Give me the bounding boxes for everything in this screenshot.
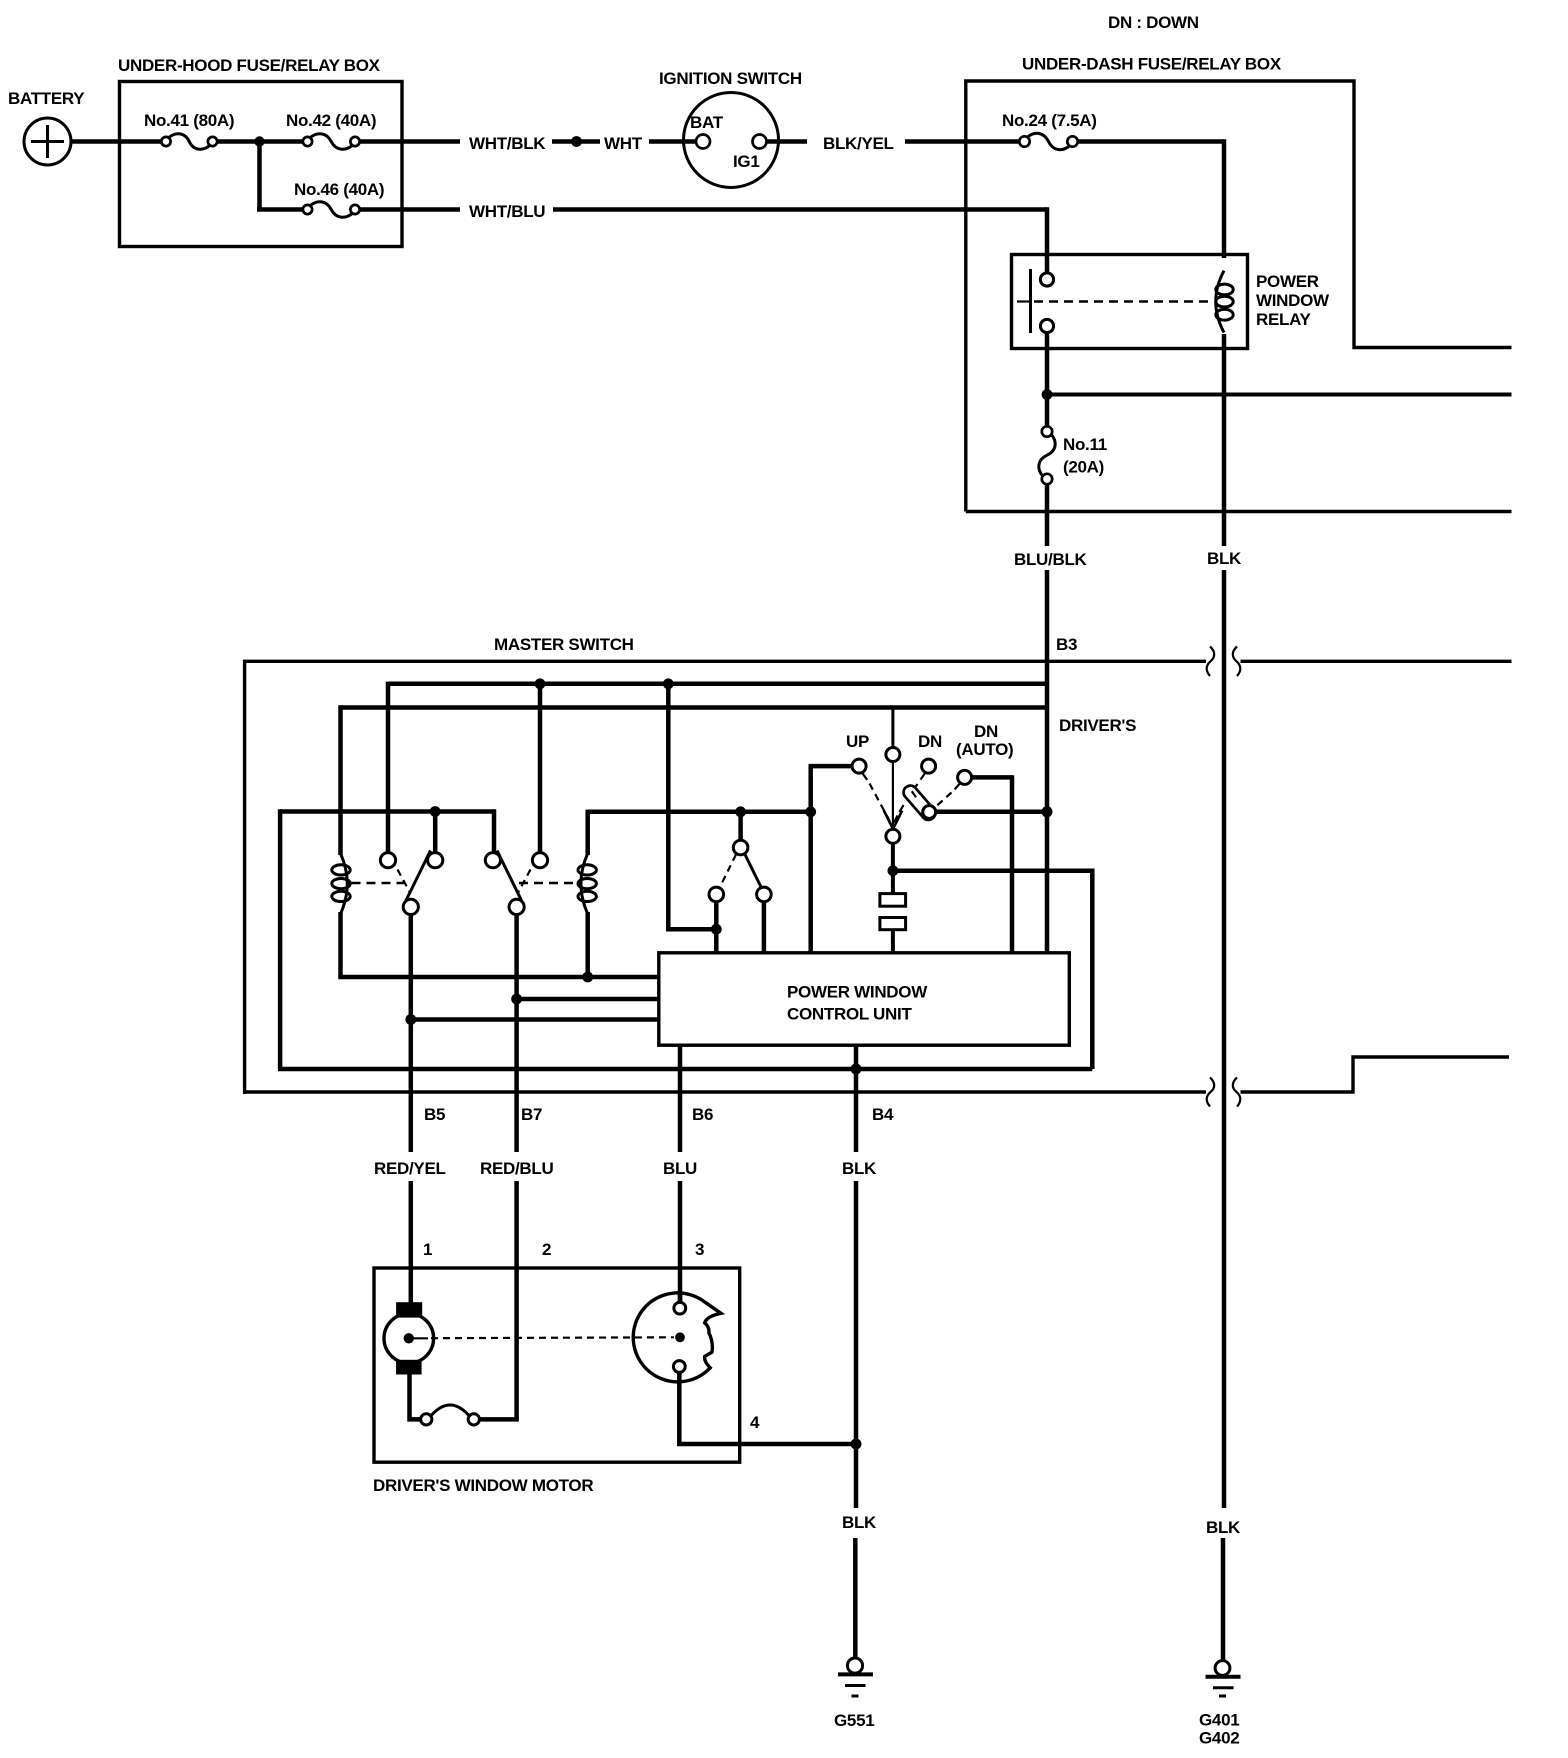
coil mechanical dashed link [352, 882, 405, 884]
mechanical dashed link motor to drum [411, 1337, 428, 1339]
wire switch2 moving down B7 [514, 914, 519, 1152]
svg-text:BLK: BLK [1206, 1518, 1241, 1537]
wire junction to fuse No.42 [260, 139, 304, 144]
wire motor bottom to link [410, 1375, 421, 1420]
wire BLK/YEL to fuse No.24 [905, 139, 1020, 144]
driver's switch common feed contact [886, 748, 900, 762]
power window control unit [659, 953, 1070, 1045]
wire switch1 moving down B5 [409, 914, 414, 1152]
wire B7 RED/BLU down to motor [514, 1181, 519, 1419]
wire B rail [341, 705, 1048, 710]
right relay coil [581, 854, 588, 915]
wire battery to fuse box [71, 139, 122, 144]
svg-text:IGNITION SWITCH: IGNITION SWITCH [659, 69, 802, 88]
wire fuse46 out WHT/BLU [360, 207, 461, 212]
DN AUTO dashed link [955, 784, 960, 790]
resistor R1 [880, 894, 906, 907]
wire B4 BLK down [854, 1069, 859, 1152]
wire WHT to ignition switch [649, 139, 696, 144]
junction node [663, 678, 674, 689]
junction node B4 [851, 1064, 862, 1075]
relay coil [1216, 271, 1224, 333]
wire third switch right fixed to control unit [762, 902, 767, 953]
switch2 released position dashed [518, 870, 531, 893]
svg-text:DN : DOWN: DN : DOWN [1108, 13, 1199, 32]
wire pin4 [679, 1372, 856, 1444]
svg-text:G401: G401 [1199, 1711, 1239, 1730]
svg-text:POWER: POWER [1256, 272, 1319, 291]
wire splice to WHT [581, 139, 600, 144]
wire E rail left [588, 810, 811, 815]
svg-text:UNDER-HOOD FUSE/RELAY BOX: UNDER-HOOD FUSE/RELAY BOX [118, 56, 381, 75]
switch1 blade [406, 851, 431, 901]
svg-text:RELAY: RELAY [1256, 310, 1312, 329]
svg-text:BATTERY: BATTERY [8, 89, 85, 108]
junction node [888, 865, 899, 876]
ignition switch body [684, 93, 779, 188]
wire IG1 out [767, 139, 808, 144]
svg-text:RED/BLU: RED/BLU [480, 1159, 553, 1178]
fuse No.42 (40A) [303, 137, 312, 146]
terminal BAT [696, 135, 710, 149]
wire drop from wire A to third switch feed [666, 684, 671, 929]
wire link to pin2 riser [479, 1417, 519, 1422]
ground G401 G402 [1215, 1661, 1230, 1676]
driver's switch DN AUTO contact [958, 770, 972, 784]
svg-text:WHT: WHT [604, 134, 643, 153]
svg-text:IG1: IG1 [733, 152, 760, 171]
battery BAT [24, 118, 71, 165]
junction node [254, 136, 264, 146]
wire to fuse No.46 [257, 207, 303, 212]
svg-text:BLU: BLU [663, 1159, 697, 1178]
svg-text:B5: B5 [424, 1105, 445, 1124]
svg-text:WINDOW: WINDOW [1256, 291, 1330, 310]
wire moving contact down [891, 843, 895, 894]
power window relay box [1012, 255, 1248, 349]
junction node [405, 1014, 416, 1025]
rocker actuator [901, 783, 938, 823]
svg-text:No.46 (40A): No.46 (40A) [294, 180, 384, 199]
wire moving contact to right drop [893, 868, 1092, 873]
svg-text:No.41 (80A): No.41 (80A) [144, 111, 234, 130]
wire B4 to ground [854, 1444, 859, 1508]
fuse No.41 (80A) [161, 137, 170, 146]
svg-text:MASTER SWITCH: MASTER SWITCH [494, 635, 634, 654]
master switch box top edge [245, 660, 1206, 663]
wire D rail [280, 809, 494, 814]
wire fuse24 to relay coil [1078, 139, 1224, 144]
driver's window motor box [374, 1268, 740, 1462]
rocker end contact [923, 806, 936, 819]
DN dashed link continuation [912, 791, 916, 797]
wire to control unit from switch2 [517, 997, 659, 1002]
wire WHT/BLU down to relay contact [1045, 207, 1050, 273]
DN dashed link [921, 772, 926, 779]
svg-text:G402: G402 [1199, 1729, 1239, 1748]
junction node pin4 B4 [851, 1439, 862, 1450]
junction node [582, 972, 593, 983]
driver's switch DN contact [922, 759, 936, 773]
svg-text:CONTROL UNIT: CONTROL UNIT [787, 1005, 912, 1024]
wire control unit stub to B4 junction [854, 1045, 859, 1069]
third switch common contact [733, 840, 748, 855]
wire BLK right lower [1221, 1538, 1226, 1661]
junction node [430, 806, 441, 817]
wire B6 into connector [678, 1293, 683, 1303]
svg-text:B3: B3 [1056, 635, 1077, 654]
svg-text:BLK: BLK [842, 1159, 877, 1178]
UP dashed link [862, 773, 867, 780]
wire WHT/BLU long run [553, 207, 1047, 212]
master switch box bottom edge [245, 1090, 1206, 1093]
wire fuse11 down BLU/BLK [1045, 484, 1050, 546]
wire break hook [1207, 647, 1215, 677]
svg-text:(AUTO): (AUTO) [956, 740, 1013, 759]
svg-text:2: 2 [542, 1240, 551, 1259]
wire resistor to control unit [891, 930, 895, 953]
relay mechanical dashed link [1034, 300, 1212, 302]
wire break hook [1233, 1078, 1241, 1107]
wire left coil down [338, 912, 343, 977]
svg-text:G551: G551 [834, 1711, 874, 1730]
driver's switch UP contact [852, 759, 866, 773]
wire fuse42 out WHT/BLK [360, 139, 461, 144]
wire BLK down [1222, 570, 1227, 1508]
connector bottom terminal [673, 1361, 685, 1373]
svg-text:3: 3 [695, 1240, 704, 1259]
wire right coil down [585, 912, 590, 977]
wire to control unit from switch1 [411, 1017, 659, 1022]
third switch left fixed contact [709, 887, 724, 902]
wire D left drop to wire F [278, 809, 283, 1069]
junction node on wire E third switch [735, 806, 746, 817]
under-hood fuse/relay box [120, 82, 403, 247]
third switch blade [745, 854, 762, 889]
link terminal [421, 1414, 432, 1425]
connector center [675, 1332, 685, 1342]
svg-text:B4: B4 [872, 1105, 894, 1124]
junction node [1042, 389, 1053, 400]
wire A power rail [388, 682, 1047, 687]
switch2 moving contact [509, 899, 524, 914]
svg-text:(20A): (20A) [1063, 458, 1104, 477]
svg-text:1: 1 [423, 1240, 432, 1259]
svg-text:BLK/YEL: BLK/YEL [823, 134, 894, 153]
switch arm with arrow [892, 762, 894, 827]
junction node [535, 678, 546, 689]
wire E rail right [936, 810, 1047, 815]
wire relay contact down to junction [1045, 333, 1050, 429]
left relay coil [341, 854, 348, 915]
wire DN AUTO to control unit [972, 775, 1013, 780]
wire A left drop to switch1 left contact [386, 682, 391, 854]
fuse No.11 (20A) [1042, 426, 1052, 436]
svg-text:DN: DN [918, 732, 942, 751]
junction node [511, 994, 522, 1005]
wire B5 RED/YEL down to motor [409, 1181, 414, 1303]
switch1 right fixed contact [428, 853, 443, 868]
switch1 moving contact [403, 899, 418, 914]
motor M1 body [384, 1314, 434, 1364]
wire B left drop to left coil [338, 705, 343, 855]
wire B4 BLK lower [853, 1538, 858, 1659]
connector top terminal [674, 1302, 686, 1314]
svg-text:POWER WINDOW: POWER WINDOW [787, 983, 928, 1002]
junction node on BLU/BLK rail [1042, 806, 1053, 817]
wire drop to switch2 left contact [492, 809, 497, 853]
svg-text:UNDER-DASH FUSE/RELAY BOX: UNDER-DASH FUSE/RELAY BOX [1022, 55, 1282, 74]
svg-text:BLU/BLK: BLU/BLK [1014, 550, 1088, 569]
wire junction to right edge [1047, 393, 1512, 397]
drum connector outline [633, 1293, 721, 1382]
svg-text:B6: B6 [692, 1105, 713, 1124]
svg-text:UP: UP [846, 732, 869, 751]
switch1 released position dashed [398, 870, 411, 893]
ground G551 [847, 1658, 862, 1673]
svg-text:DN: DN [974, 722, 998, 741]
wire drop to switch2 right contact [538, 684, 543, 854]
motor M1 brush bottom [396, 1360, 422, 1375]
wire to fuse No.41 [120, 139, 162, 144]
wire F ground rail [278, 1067, 1092, 1072]
under-dash fuse/relay box [966, 81, 1512, 512]
svg-text:No.11: No.11 [1063, 435, 1107, 454]
wire UP riser [808, 766, 813, 953]
svg-text:4: 4 [750, 1413, 760, 1432]
wire WHT/BLK to splice [552, 139, 572, 144]
switch2 right fixed contact [532, 853, 547, 868]
svg-text:WHT/BLK: WHT/BLK [469, 134, 546, 153]
master switch box left edge [243, 660, 246, 1094]
wire common feed riser [891, 708, 894, 748]
master switch box top edge right part B3 [1241, 660, 1512, 663]
wire BLU/BLK down to control unit [1045, 570, 1050, 953]
svg-text:BLK: BLK [1207, 549, 1242, 568]
wire drop to switch1 right contact [433, 812, 438, 854]
svg-text:RED/YEL: RED/YEL [374, 1159, 446, 1178]
svg-text:WHT/BLU: WHT/BLU [469, 202, 545, 221]
relay contact [1040, 273, 1053, 286]
wire to third switch common [738, 812, 743, 842]
wire fuse41 to junction [217, 139, 260, 144]
svg-text:BLK: BLK [842, 1513, 877, 1532]
svg-text:No.42 (40A): No.42 (40A) [286, 111, 376, 130]
vertical junction to fuse No.46 [257, 142, 262, 210]
link bridge arc [431, 1405, 470, 1416]
resistor R2 [880, 918, 906, 930]
svg-text:BAT: BAT [690, 113, 724, 132]
svg-text:DRIVER'S WINDOW MOTOR: DRIVER'S WINDOW MOTOR [373, 1476, 593, 1495]
wire B6 from control unit [678, 1045, 683, 1152]
wire E drop to right coil [585, 810, 590, 855]
splice node [571, 136, 582, 147]
wire C coils to control unit [338, 975, 659, 980]
switch2 left fixed contact [485, 853, 500, 868]
terminal IG1 [753, 135, 767, 149]
wire B6 BLU down to motor connector [678, 1181, 683, 1303]
switch1 left fixed contact [380, 853, 395, 868]
third switch right fixed contact [757, 887, 772, 902]
wire relay coil down BLK [1222, 334, 1227, 546]
wire break hook [1207, 1078, 1215, 1107]
motor M1 brush top [396, 1302, 422, 1317]
master switch box bottom edge right part with step [1241, 1057, 1510, 1092]
svg-text:DRIVER'S: DRIVER'S [1059, 716, 1136, 735]
link terminal [468, 1414, 479, 1425]
svg-text:B7: B7 [521, 1105, 542, 1124]
driver's switch moving contact [886, 829, 900, 843]
junction node UP riser [805, 806, 816, 817]
wire break hook [1233, 647, 1241, 677]
svg-text:No.24 (7.5A): No.24 (7.5A) [1002, 111, 1097, 130]
third switch released dashed [720, 855, 737, 889]
switch2 blade [497, 851, 522, 901]
wire third switch left fixed to control unit [714, 902, 719, 953]
fuse No.46 (40A) [303, 205, 312, 214]
junction node [711, 924, 722, 935]
fuse No.24 (7.5A) [1019, 136, 1029, 146]
